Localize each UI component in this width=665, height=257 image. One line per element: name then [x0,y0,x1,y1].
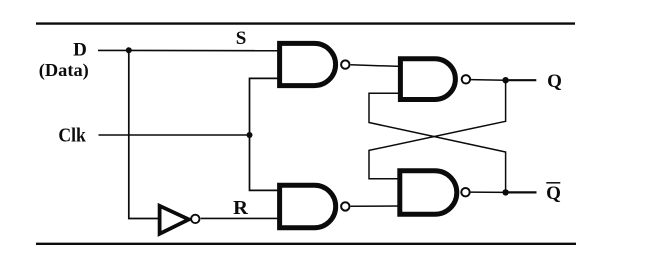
label Q-bar [546,183,561,204]
junction node D [126,47,132,53]
svg-text:Clk: Clk [58,124,86,146]
wire U2 output to U4 lower input [351,205,401,207]
svg-text:D: D [73,40,87,61]
wire Clk up to U1 lower input [250,78,280,135]
junction node Qbar [502,189,508,195]
svg-text:S: S [236,28,247,49]
wire feedback Qbar to U3 lower input [369,93,506,192]
wire Clk lead [99,134,250,136]
wire D/S input to U1 [98,49,280,51]
junction node Clk [247,132,253,138]
wire U4 output to node Qbar [470,191,505,193]
wire feedback Q to U4 upper input [369,80,506,179]
wire D vertical down to inverter [129,50,159,218]
wire U1 output to U3 upper input [351,65,401,67]
nand gate U2 (R gate, bottom-left) [280,185,350,227]
svg-text:(Data): (Data) [39,60,89,80]
svg-text:Q: Q [546,183,561,204]
nand gate U1 (S gate, top-left) [280,43,350,85]
inverter (Clk to R) [160,206,200,234]
wire Q lead [506,79,537,81]
nand gate U4 (bottom-right) [400,171,470,215]
junction node Q [502,77,508,83]
wire R (inverter output to U2 lower input) [201,217,280,219]
wire U3 output to node Q [471,79,506,82]
wire Qbar lead [506,191,537,193]
nand gate U3 (top-right) [400,59,470,100]
svg-text:Q: Q [547,71,562,92]
wire Clk down to U2 upper input [250,135,280,190]
svg-text:R: R [233,197,248,219]
